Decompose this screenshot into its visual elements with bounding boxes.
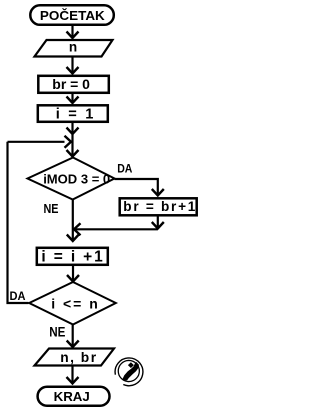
svg-text:NE: NE [49, 323, 65, 339]
svg-text:DA: DA [117, 162, 132, 176]
svg-text:i <= n: i <= n [51, 295, 98, 311]
svg-text:iMOD 3 = 0: iMOD 3 = 0 [43, 171, 110, 186]
svg-text:POČETAK: POČETAK [40, 8, 106, 23]
svg-text:KRAJ: KRAJ [54, 389, 90, 404]
svg-text:br = 0: br = 0 [52, 76, 90, 92]
svg-text:n: n [69, 40, 77, 55]
svg-text:DA: DA [10, 289, 26, 303]
svg-text:i = 1: i = 1 [56, 107, 94, 123]
svg-text:NE: NE [44, 201, 59, 216]
svg-text:i = i +1: i = i +1 [41, 249, 103, 266]
svg-text:n, br: n, br [60, 350, 97, 365]
